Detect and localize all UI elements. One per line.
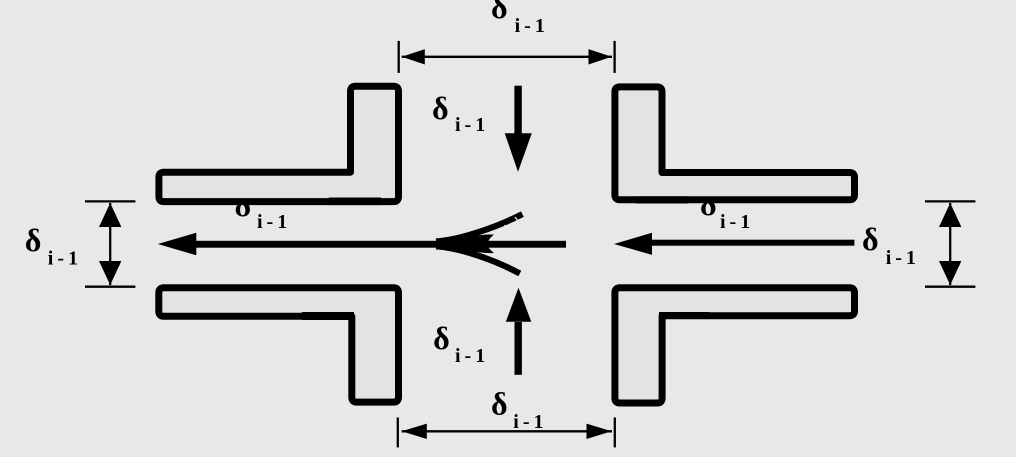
lower-middle up arrow — [515, 322, 522, 375]
block top-right (L-shape) — [615, 87, 855, 200]
label delta i-1 hidden under top-left block — [235, 187, 288, 233]
svg-text:δ: δ — [433, 320, 450, 356]
svg-text:i - 1: i - 1 — [455, 114, 485, 136]
right vertical dimension — [925, 201, 975, 286]
svg-text:i - 1: i - 1 — [257, 211, 287, 233]
top dimension line — [399, 41, 615, 73]
notch on bottom edge of bottom-right block — [659, 312, 709, 319]
left vertical dimension — [85, 201, 135, 286]
bottom dimension line — [398, 418, 615, 448]
svg-text:i - 1: i - 1 — [48, 248, 78, 270]
upper-middle down arrow — [514, 86, 521, 136]
notch on bottom edge of bottom-left block — [302, 312, 354, 320]
notch on bottom edge of top-right block — [637, 196, 689, 203]
label delta i-1 hidden under top-right block — [700, 186, 750, 233]
notch on bottom edge of top-left block — [329, 198, 381, 206]
central left-pointing arrowhead — [158, 233, 197, 256]
svg-text:i - 1: i - 1 — [720, 211, 750, 233]
svg-text:i - 1: i - 1 — [455, 345, 485, 367]
right leftward arrow shaft — [648, 240, 854, 246]
right leftward arrowhead — [614, 233, 652, 255]
block top-left (L-shape) — [159, 86, 399, 201]
crack fork upper curve — [436, 214, 522, 241]
svg-text:δ: δ — [491, 386, 508, 422]
block bottom-left (L-shape) — [159, 288, 399, 402]
crack fork junction wedge — [433, 234, 494, 253]
svg-text:δ: δ — [862, 221, 879, 257]
svg-text:δ: δ — [432, 90, 449, 126]
bottom dimension right arrowhead — [587, 424, 612, 439]
top dimension left arrowhead — [402, 49, 425, 64]
svg-text:i - 1: i - 1 — [513, 411, 543, 433]
svg-text:i - 1: i - 1 — [515, 15, 545, 37]
svg-text:δ: δ — [491, 0, 508, 25]
crack fork lower curve — [436, 246, 520, 273]
svg-text:i - 1: i - 1 — [886, 247, 916, 269]
right vertical dimension arrowheads — [939, 203, 961, 227]
svg-text:δ: δ — [25, 222, 42, 258]
block bottom-right (L-shape) — [615, 288, 855, 403]
bottom dimension left arrowhead — [402, 424, 427, 439]
nicks on fork curves — [497, 217, 519, 264]
left vertical dimension arrowheads — [99, 203, 121, 227]
top dimension right arrowhead — [589, 49, 612, 64]
central left-pointing arrow shaft — [192, 241, 566, 248]
